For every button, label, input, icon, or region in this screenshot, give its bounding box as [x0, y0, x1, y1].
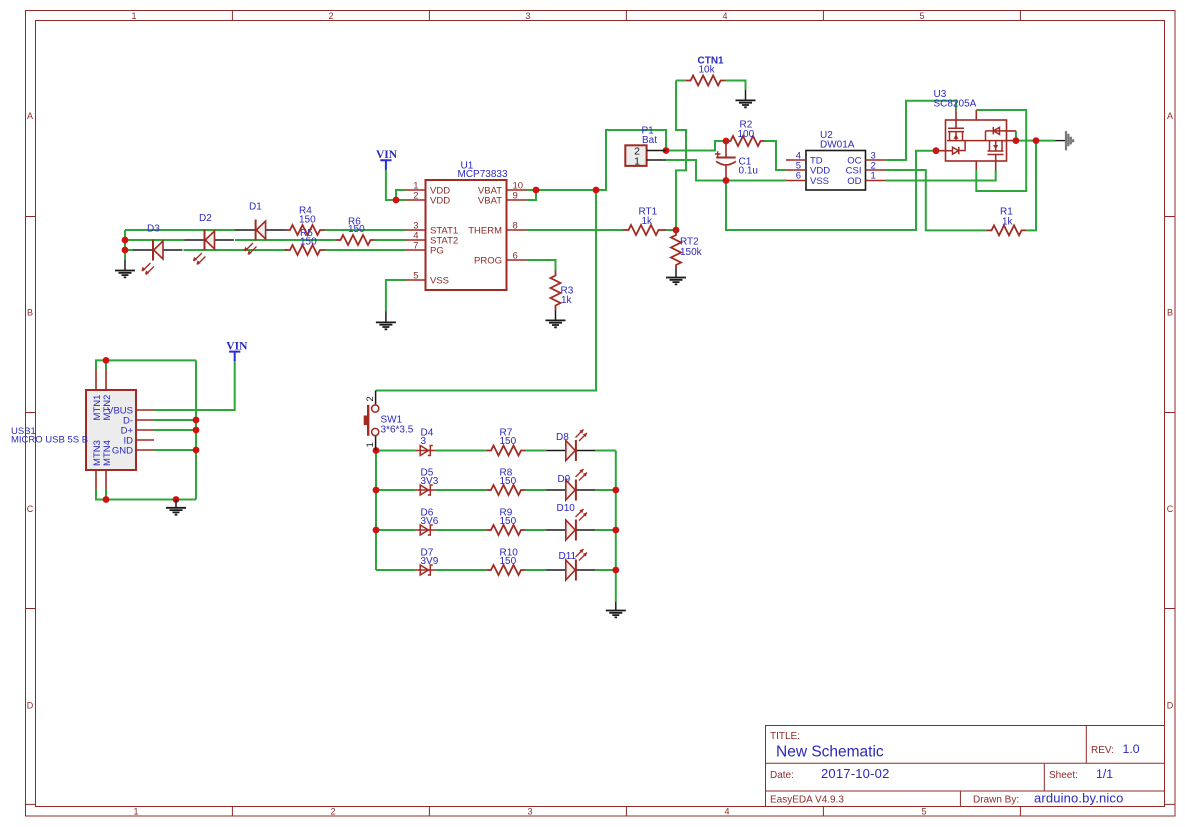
- wire U3 pin2 loop to bottom pin: [976, 110, 1026, 191]
- svg-text:1k: 1k: [1002, 217, 1014, 228]
- net flag VIN at USB: [226, 341, 248, 362]
- svg-text:150k: 150k: [680, 247, 703, 258]
- svg-text:VSS: VSS: [430, 276, 449, 287]
- title block: [766, 726, 1165, 807]
- node VIN junction: [393, 197, 400, 204]
- LED D8: [546, 430, 595, 462]
- wire PG row D3 to R5 to U1 pin7: [184, 249, 406, 251]
- node USB MTN2 top: [103, 357, 110, 364]
- U3 body diode left: [946, 141, 966, 155]
- LED D9: [546, 469, 595, 501]
- svg-text:6: 6: [796, 171, 801, 182]
- svg-text:5: 5: [921, 807, 926, 817]
- op-amp U2 DW01A body: [806, 151, 866, 191]
- svg-text:Sheet:: Sheet:: [1049, 770, 1078, 781]
- wire U1 VBAT pins to VBAT net: [527, 190, 597, 200]
- svg-text:7: 7: [413, 241, 418, 252]
- svg-text:1: 1: [871, 171, 876, 182]
- wire CTN1 right to ground: [726, 81, 746, 91]
- wire STAT1 row D1 to R4 to U1 pin3: [325, 229, 406, 231]
- svg-text:D10: D10: [557, 503, 576, 514]
- svg-text:VDD: VDD: [430, 196, 450, 207]
- wire VBAT vertical down to SW1 ladder: [376, 190, 596, 391]
- svg-text:1: 1: [131, 11, 136, 21]
- svg-text:SC8205A: SC8205A: [934, 99, 977, 110]
- svg-text:D8: D8: [556, 432, 569, 443]
- wire P1 pin1 to C1 bottom / U2 VSS: [666, 160, 786, 181]
- node U3 source rail 2: [1033, 137, 1040, 144]
- svg-text:150: 150: [500, 556, 517, 567]
- svg-text:4: 4: [722, 11, 727, 21]
- zener diode D7: [416, 548, 439, 576]
- svg-text:2017-10-02: 2017-10-02: [821, 766, 890, 781]
- svg-text:1: 1: [634, 156, 640, 168]
- wire U2 CSI pin2 to R1 left: [886, 170, 987, 230]
- frame row ticks left: [26, 217, 36, 805]
- resistor R1: [986, 225, 1026, 235]
- U1 pin 9 VBAT: [507, 199, 527, 201]
- svg-text:9: 9: [513, 191, 518, 202]
- U2 pin 5 VDD: [786, 169, 806, 171]
- svg-text:0.1u: 0.1u: [739, 166, 758, 177]
- svg-text:DW01A: DW01A: [820, 140, 855, 151]
- node USB MTN4 bottom: [103, 496, 110, 503]
- resistor R7: [486, 446, 525, 456]
- wire ladder row4: [376, 569, 616, 571]
- resistor R3: [551, 271, 561, 311]
- svg-text:150: 150: [300, 237, 317, 248]
- resistor RT1: [623, 225, 667, 235]
- wire C1 bottom down right to U3 left pin: [726, 151, 936, 230]
- node ladder left row3: [373, 527, 380, 534]
- ground at LED ladder rail: [606, 602, 626, 617]
- svg-text:VDD: VDD: [810, 166, 830, 177]
- LED D1: [236, 202, 285, 255]
- svg-text:MCP73833: MCP73833: [458, 169, 508, 180]
- ground at left LED rail: [115, 260, 135, 277]
- svg-text:EasyEDA V4.9.3: EasyEDA V4.9.3: [770, 794, 844, 805]
- svg-text:1k: 1k: [561, 295, 573, 306]
- net flag VIN top: [376, 149, 398, 170]
- wire U1 PROG pin6 to R3: [527, 260, 556, 271]
- svg-text:D9: D9: [558, 474, 571, 485]
- wire VIN to U1 VDD: [386, 170, 406, 201]
- wire P1 pin2 to R2/C1 top: [666, 141, 726, 151]
- svg-text:REV:: REV:: [1091, 745, 1114, 756]
- svg-text:D3: D3: [147, 224, 160, 235]
- frame row ticks right: [1165, 217, 1175, 805]
- svg-text:C: C: [1167, 504, 1174, 514]
- node ladder right row2: [612, 487, 619, 494]
- U1 pin 3 STAT1: [406, 229, 426, 231]
- svg-text:OD: OD: [847, 176, 861, 187]
- svg-text:3*6*3.5: 3*6*3.5: [381, 425, 414, 436]
- svg-text:1: 1: [365, 442, 376, 447]
- ground at RT2: [666, 270, 686, 284]
- resistor RT2: [671, 230, 681, 270]
- node R2/C1 top: [723, 138, 730, 145]
- svg-text:1.0: 1.0: [1123, 742, 1140, 756]
- capacitor C1: [715, 141, 758, 181]
- wire USB GND to rail: [154, 449, 196, 451]
- wire RT1 right to RT2 junction: [667, 229, 676, 231]
- wire U3 top-right pin down to source rail: [1015, 131, 1017, 141]
- svg-text:Drawn By:: Drawn By:: [973, 794, 1019, 805]
- U1 pin 2 VDD: [406, 199, 426, 201]
- zener diode D6: [416, 508, 439, 536]
- resistor R4: [285, 225, 325, 235]
- U1 pin 5 VSS: [406, 279, 426, 281]
- node P1 pin2: [663, 147, 670, 154]
- svg-text:150: 150: [500, 516, 517, 527]
- svg-text:150: 150: [500, 476, 517, 487]
- svg-text:2: 2: [413, 191, 418, 202]
- wire USB VBUS to VIN2 flag: [154, 360, 235, 410]
- U1 pin 8 THERM: [507, 229, 527, 231]
- U1 pin 1 VDD: [406, 189, 426, 191]
- node U3 left pin: [933, 147, 940, 154]
- node USB D+ rail: [193, 427, 200, 434]
- wire U1 THERM pin8 to RT1: [527, 229, 624, 231]
- LED D2: [185, 213, 234, 265]
- svg-text:150: 150: [500, 436, 517, 447]
- U2 pin 3 OC: [866, 159, 886, 161]
- wire U2 OD pin1 to U3 bottom pin: [886, 170, 996, 181]
- resistor R8: [486, 485, 525, 495]
- U1 pin 6 PROG: [507, 259, 527, 261]
- switch SW1: [364, 391, 414, 451]
- node USB D- rail: [193, 417, 200, 424]
- wire ladder row3: [376, 529, 616, 531]
- svg-text:150: 150: [299, 215, 316, 226]
- svg-text:B: B: [27, 308, 33, 318]
- ground at R3: [546, 311, 566, 328]
- node ladder left row2: [373, 487, 380, 494]
- svg-text:3: 3: [527, 807, 532, 817]
- wire ladder left rail: [375, 451, 377, 571]
- wire left LED rail: [125, 230, 236, 260]
- resistor R9: [486, 525, 525, 535]
- wire USB D- to rail: [154, 419, 196, 421]
- svg-text:RT2: RT2: [680, 237, 699, 248]
- ground flag right of U3: [1055, 131, 1073, 150]
- svg-text:PROG: PROG: [474, 256, 502, 267]
- node U3 source rail 1: [1013, 137, 1020, 144]
- resistor R2: [726, 136, 764, 146]
- wire ladder row1: [376, 450, 616, 452]
- svg-text:3V9: 3V9: [421, 556, 439, 567]
- svg-text:1/1: 1/1: [1096, 767, 1113, 781]
- wire U3 source to GND flag: [1016, 140, 1055, 142]
- svg-text:150: 150: [348, 224, 365, 235]
- svg-text:Date:: Date:: [770, 770, 794, 781]
- frame column ticks top: [232, 11, 1020, 21]
- svg-text:1: 1: [133, 807, 138, 817]
- svg-text:A: A: [1167, 111, 1173, 121]
- resistor R5: [285, 245, 325, 255]
- svg-text:3V6: 3V6: [421, 516, 439, 527]
- svg-text:2: 2: [330, 807, 335, 817]
- svg-text:B: B: [1167, 308, 1173, 318]
- svg-text:PG: PG: [430, 246, 444, 257]
- wire R2 right to U2 VDD pin5: [764, 141, 786, 170]
- svg-text:5: 5: [919, 11, 924, 21]
- svg-text:D2: D2: [199, 213, 212, 224]
- svg-text:4: 4: [724, 807, 729, 817]
- U2 pin 6 VSS: [786, 180, 806, 182]
- svg-text:VBAT: VBAT: [478, 196, 502, 207]
- svg-text:8: 8: [513, 221, 518, 232]
- wire USB bottom rail: [96, 490, 196, 500]
- ground at CTN1: [736, 90, 756, 107]
- node left rail STAT2: [122, 237, 129, 244]
- svg-text:New Schematic: New Schematic: [776, 744, 884, 761]
- wire R1 right to U3 source dot: [1026, 141, 1036, 231]
- LED D10: [546, 503, 595, 541]
- thermistor CTN1: [686, 76, 726, 86]
- node RT1/RT2/CTN1: [673, 227, 680, 234]
- wire VBAT to P1 pin2: [596, 130, 666, 190]
- svg-text:D11: D11: [559, 551, 577, 562]
- resistor R10: [486, 565, 525, 575]
- wire CTN1 left lead: [676, 80, 686, 82]
- svg-text:TITLE:: TITLE:: [770, 731, 800, 742]
- svg-text:10k: 10k: [699, 65, 716, 76]
- U2 pin 1 OD: [866, 180, 886, 182]
- U2 pin 2 CSI: [866, 169, 886, 171]
- ground at USB: [166, 500, 186, 515]
- wire CTN1 net jog from RT junction: [676, 81, 686, 231]
- wire USB top rail: [96, 360, 196, 370]
- node VBAT at U1: [533, 187, 540, 194]
- svg-text:arduino.by.nico: arduino.by.nico: [1034, 791, 1123, 806]
- svg-text:2: 2: [328, 11, 333, 21]
- node USB ground stem: [173, 496, 180, 503]
- zener diode D4: [416, 428, 435, 456]
- svg-text:THERM: THERM: [468, 226, 502, 237]
- node C1 bottom: [723, 177, 730, 184]
- svg-text:6: 6: [513, 251, 518, 262]
- svg-text:D1: D1: [249, 202, 262, 213]
- svg-text:CSI: CSI: [846, 166, 862, 177]
- LED D3: [133, 224, 182, 275]
- zener diode D5: [416, 468, 439, 496]
- wire U1 VSS pin5 to ground: [386, 280, 406, 312]
- wire STAT2 row to R6 to U1 pin4: [235, 239, 406, 241]
- svg-text:C: C: [27, 504, 34, 514]
- node VBAT branch: [593, 187, 600, 194]
- transistor U3 SC8205A dual mosfet: [934, 89, 1016, 170]
- svg-text:Bat: Bat: [642, 135, 657, 146]
- node USB GND rail: [193, 447, 200, 454]
- U1 pin 4 STAT2: [406, 239, 426, 241]
- op-amp U1 MCP73833 body: [426, 180, 507, 290]
- svg-text:5: 5: [413, 271, 418, 282]
- wire USB right rail: [195, 360, 197, 499]
- wire ladder row2: [376, 489, 616, 491]
- svg-text:VSS: VSS: [810, 176, 829, 187]
- U1 pin 10 VBAT: [507, 189, 527, 191]
- node left rail PG: [122, 247, 129, 254]
- U1 pin 7 PG: [406, 249, 426, 251]
- connector P1 Bat: [625, 126, 666, 168]
- frame column ticks bottom: [232, 807, 1020, 817]
- U3 body diode right: [993, 127, 999, 134]
- svg-text:100: 100: [738, 129, 755, 140]
- svg-text:GND: GND: [112, 446, 133, 457]
- svg-text:1k: 1k: [642, 216, 654, 227]
- svg-text:D: D: [27, 701, 34, 711]
- svg-text:2: 2: [365, 396, 376, 401]
- svg-text:MICRO USB 5S B: MICRO USB 5S B: [11, 435, 88, 446]
- U2 pin 4 TD: [786, 159, 806, 161]
- node ladder right row4: [612, 567, 619, 574]
- LED D11: [546, 549, 595, 581]
- svg-text:3: 3: [421, 436, 427, 447]
- resistor R6: [336, 235, 375, 245]
- svg-text:3: 3: [525, 11, 530, 21]
- node ladder left row1: [373, 447, 380, 454]
- wire ladder right rail: [615, 451, 617, 603]
- wire USB D+ to rail: [154, 429, 196, 431]
- svg-text:3V3: 3V3: [421, 476, 439, 487]
- wire U2 OC pin3 to U3 gate1: [886, 101, 957, 160]
- svg-text:VIN: VIN: [376, 149, 398, 161]
- node ladder right row3: [612, 527, 619, 534]
- connector USB1 MICRO USB: [11, 370, 154, 490]
- svg-text:D: D: [1167, 701, 1174, 711]
- ground at U1 VSS: [376, 312, 396, 330]
- svg-text:A: A: [27, 111, 33, 121]
